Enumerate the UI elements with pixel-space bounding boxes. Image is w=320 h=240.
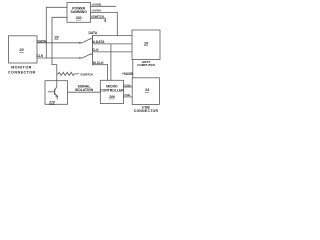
wire CLK to host (93, 51, 132, 53)
transistor Q emitter lead (55, 93, 57, 99)
wire M-DATA drop to micro (110, 44, 112, 80)
svg-text:MONITOR: MONITOR (11, 66, 32, 70)
svg-text:10: 10 (144, 41, 149, 46)
wire post switch 1 (90, 36, 92, 39)
wire signal isolation to micro (68, 91, 101, 93)
svg-text:DATA: DATA (89, 31, 98, 35)
svg-text:206: 206 (108, 95, 115, 99)
svg-text:DATA: DATA (38, 40, 47, 44)
svg-text:202: 202 (75, 16, 82, 20)
svg-text:20: 20 (18, 47, 24, 52)
switch S2 lever (83, 54, 91, 58)
wire M-DATA (93, 43, 132, 45)
transistor Q collector lead (55, 81, 57, 90)
wire USB- micro to usb conn (124, 96, 133, 98)
transistor Q base lead (48, 91, 54, 93)
svg-text:M-DATA: M-DATA (92, 40, 105, 44)
svg-text:+5USB: +5USB (91, 3, 102, 7)
svg-text:VSWITCH: VSWITCH (91, 15, 104, 19)
node vertical V5 (92, 36, 94, 65)
svg-text:CONNECTOR: CONNECTOR (8, 70, 36, 74)
transistor Q base bar (54, 89, 56, 94)
wire VSWITCH output with down arrow (91, 18, 106, 20)
svg-text:USB-: USB- (124, 93, 131, 97)
svg-text:VSWITCH: VSWITCH (80, 73, 93, 77)
wire CLK from monitor (37, 57, 82, 59)
resistor R (57, 72, 79, 75)
wire power input 1 (46, 7, 67, 58)
micro controller box 206 (100, 80, 123, 103)
wire DATA from monitor (37, 42, 82, 44)
signal isolation box 210 (45, 81, 68, 105)
wire M-CLK drop to micro (107, 65, 109, 81)
svg-text:CONNECTOR: CONNECTOR (134, 109, 159, 113)
svg-text:USB+: USB+ (124, 83, 132, 87)
svg-text:SUMMING: SUMMING (71, 10, 88, 14)
wire +5VGA output (91, 12, 118, 35)
wire DATA to host (93, 35, 132, 37)
svg-text:COMPUTER: COMPUTER (137, 63, 155, 67)
wire M-CLK (93, 64, 108, 66)
wire power input 2 (52, 17, 67, 80)
USB connector box 14 (132, 78, 159, 105)
transistor Q node dot (56, 96, 58, 98)
switch S1 lever (83, 39, 91, 43)
wire +5USB host to usb conn (132, 59, 134, 77)
switch S1 arrow (79, 42, 82, 44)
svg-text:CONTROLLER: CONTROLLER (100, 88, 124, 92)
svg-text:+5USB: +5USB (122, 72, 133, 76)
svg-text:CLK: CLK (37, 54, 44, 58)
svg-text:+5VGA: +5VGA (91, 9, 102, 13)
svg-text:210: 210 (48, 100, 55, 104)
power summing box 202 (67, 3, 91, 23)
wire USB+ micro to usb conn (124, 86, 133, 88)
svg-text:CLK: CLK (92, 48, 99, 52)
svg-text:28: 28 (54, 35, 59, 39)
wire post switch 2 (90, 52, 92, 54)
switch S2 arrow (79, 57, 82, 59)
svg-text:14: 14 (145, 87, 150, 92)
monitor connector box 20 (9, 36, 38, 63)
svg-text:M-CLK: M-CLK (93, 61, 104, 65)
transistor Q emitter arrow (55, 95, 57, 97)
host computer box 10 (132, 30, 160, 59)
wire +5USB output (91, 5, 116, 7)
svg-text:ISOLATION: ISOLATION (75, 88, 94, 92)
